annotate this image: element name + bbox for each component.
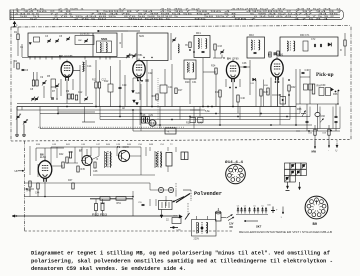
- svg-text:C43: C43: [198, 122, 203, 125]
- svg-text:R51: R51: [117, 202, 122, 205]
- svg-text:71: 71: [52, 18, 61, 20]
- svg-text:B1 EC92: B1 EC92: [80, 33, 90, 36]
- svg-text:R44: R44: [106, 144, 111, 146]
- svg-text:R9: R9: [66, 90, 70, 93]
- svg-text:R26: R26: [215, 91, 220, 94]
- svg-text:98 7: 98 7: [234, 18, 260, 20]
- svg-text:52: 52: [30, 18, 39, 20]
- svg-text:C69: C69: [321, 84, 326, 87]
- svg-text:3 7 5 8 4: 3 7 5 8 4: [294, 18, 331, 20]
- svg-text:U: U: [336, 150, 338, 153]
- svg-text:R40: R40: [27, 190, 32, 193]
- svg-text:R30: R30: [264, 85, 269, 87]
- svg-text:R5: R5: [47, 75, 51, 78]
- svg-text:950 5256 5: 950 5256 5: [128, 18, 173, 20]
- svg-text:C14: C14: [87, 65, 92, 68]
- svg-text:4.: 4.: [168, 131, 170, 134]
- svg-text:C47: C47: [96, 144, 101, 146]
- svg-text:C24: C24: [168, 86, 173, 89]
- svg-text:C46: C46: [81, 144, 86, 146]
- svg-text:B5: B5: [268, 53, 272, 57]
- svg-text:R: R: [120, 42, 122, 45]
- svg-text:R7: R7: [52, 90, 56, 93]
- svg-text:C72: C72: [311, 38, 316, 41]
- svg-text:R20: R20: [185, 81, 190, 84]
- svg-text:C29: C29: [149, 114, 154, 117]
- svg-text:C: C: [20, 113, 22, 116]
- svg-text:MF2: MF2: [249, 34, 254, 37]
- svg-text:C48: C48: [93, 170, 98, 173]
- svg-text:OC72: OC72: [123, 146, 130, 149]
- svg-text:SM1: SM1: [101, 37, 108, 41]
- svg-text:C33: C33: [218, 45, 223, 48]
- svg-text:+: +: [276, 209, 278, 212]
- svg-text:REGULERINGSKONTAKTERNE ER VIST: REGULERINGSKONTAKTERNE ER VIST I STILLIN…: [239, 231, 333, 234]
- svg-text:SK7: SK7: [256, 225, 262, 228]
- svg-text:R: R: [340, 49, 342, 52]
- svg-text:R68: R68: [297, 108, 302, 111]
- svg-text:Pick-up: Pick-up: [316, 72, 334, 78]
- svg-text:C60: C60: [267, 205, 272, 207]
- svg-text:C1: C1: [20, 46, 24, 49]
- svg-text:C55: C55: [138, 202, 143, 204]
- svg-text:C: C: [27, 119, 29, 122]
- svg-text:C62: C62: [308, 133, 313, 135]
- svg-text:R32: R32: [291, 86, 296, 89]
- svg-text:osc.: osc.: [78, 39, 83, 42]
- svg-text:B4: B4: [227, 56, 231, 60]
- svg-text:R24: R24: [211, 65, 216, 68]
- svg-text:MW: MW: [312, 151, 317, 154]
- svg-text:B3: B3: [129, 53, 133, 57]
- svg-text:EL84: EL84: [40, 156, 46, 159]
- svg-text:95: 95: [194, 18, 210, 20]
- svg-text:Polvender: Polvender: [194, 191, 222, 197]
- svg-text:C45: C45: [69, 151, 74, 154]
- svg-text:R45: R45: [81, 168, 86, 171]
- svg-text:R41: R41: [66, 144, 71, 146]
- svg-text:C63: C63: [322, 133, 327, 135]
- svg-text:R28: R28: [264, 91, 269, 94]
- svg-text:R52 R53: R52 R53: [92, 215, 108, 217]
- svg-text:C9: C9: [40, 76, 44, 79]
- svg-text:C38: C38: [242, 62, 247, 65]
- svg-text:C19: C19: [122, 84, 127, 87]
- svg-text:5,6k: 5,6k: [205, 110, 210, 113]
- svg-text:C50: C50: [138, 144, 143, 146]
- svg-text:58: 58: [20, 16, 29, 18]
- svg-text:R12: R12: [104, 80, 109, 83]
- svg-text:B9: B9: [313, 223, 318, 227]
- svg-text:C22: C22: [148, 72, 153, 75]
- svg-text:R42: R42: [59, 153, 64, 156]
- svg-text:R17: R17: [178, 89, 183, 92]
- svg-text:C43: C43: [52, 144, 57, 146]
- svg-text:EABC80: EABC80: [274, 54, 284, 57]
- svg-text:-: -: [328, 150, 329, 153]
- svg-text:R48: R48: [149, 144, 154, 146]
- svg-text:C5: C5: [59, 35, 63, 38]
- svg-text:22.: 22.: [166, 219, 170, 222]
- svg-text:C51: C51: [160, 144, 165, 146]
- svg-text:AF: AF: [122, 107, 126, 110]
- svg-text:C44: C44: [35, 192, 40, 195]
- svg-text:R: R: [97, 158, 99, 161]
- svg-text:C46: C46: [305, 69, 310, 72]
- svg-text:C31: C31: [192, 81, 197, 84]
- svg-text:1: 1: [281, 217, 283, 219]
- svg-text:polarisering, skal polvenderen: polarisering, skal polvenderen omstilles…: [31, 258, 333, 265]
- svg-text:densatoren C59 skal vendes. Se: densatoren C59 skal vendes. Se endvidere…: [31, 265, 186, 272]
- svg-text:220V: 220V: [194, 238, 200, 241]
- svg-text:EF89: EF89: [233, 57, 240, 60]
- svg-text:R47: R47: [68, 179, 73, 182]
- svg-text:SM2: SM2: [139, 35, 145, 38]
- svg-text:R36: R36: [186, 122, 191, 125]
- svg-text:C3: C3: [45, 35, 49, 38]
- svg-text:R66: R66: [333, 93, 338, 96]
- svg-text:C12: C12: [78, 91, 83, 94]
- svg-text:C6: C6: [25, 69, 29, 72]
- svg-text:T2: T2: [170, 144, 173, 146]
- svg-text:C28: C28: [141, 114, 146, 117]
- svg-text:35: 35: [185, 44, 188, 47]
- svg-text:B2: B2: [59, 54, 63, 58]
- svg-text:ECC85: ECC85: [65, 55, 74, 58]
- svg-text:ECH81: ECH81: [135, 54, 144, 57]
- svg-text:C8: C8: [30, 88, 34, 91]
- svg-text:C41: C41: [250, 83, 255, 85]
- svg-text:Diagrammet er tegnet i stillin: Diagrammet er tegnet i stilling MB, og m…: [31, 250, 330, 257]
- svg-text:R60 C71: R60 C71: [300, 34, 310, 37]
- svg-text:R2: R2: [14, 60, 18, 63]
- svg-text:DK: DK: [230, 226, 234, 229]
- svg-text:C40: C40: [241, 97, 246, 100]
- svg-text:R15: R15: [152, 95, 157, 98]
- svg-text:B7: B7: [79, 149, 83, 153]
- svg-text:2 76 5 50: 2 76 5 50: [74, 18, 109, 20]
- svg-text:R39: R39: [36, 144, 41, 146]
- svg-text:C66: C66: [321, 115, 326, 118]
- svg-text:MF1: MF1: [196, 32, 201, 35]
- svg-text:UF: UF: [15, 169, 19, 173]
